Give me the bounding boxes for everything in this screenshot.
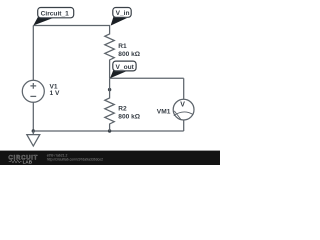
wire VM1 top	[183, 78, 185, 99]
meter gauge arc	[174, 112, 193, 116]
wire V_out rail	[110, 77, 184, 79]
svg-text:V: V	[180, 101, 185, 108]
wire bottom rail	[33, 130, 183, 132]
svg-text:1 V: 1 V	[50, 90, 60, 97]
svg-text:V_in: V_in	[116, 10, 130, 17]
svg-text:800 kΩ: 800 kΩ	[118, 114, 141, 121]
node label Circuit_1	[38, 8, 74, 18]
svg-text:V_out: V_out	[116, 64, 135, 71]
svg-text:R1: R1	[118, 43, 127, 50]
resistor R2	[105, 78, 115, 131]
svg-text:800 kΩ: 800 kΩ	[118, 51, 141, 58]
svg-text:R2: R2	[118, 106, 127, 113]
CircuitLab logo resistor squiggle	[9, 160, 22, 163]
svg-text:Circuit_1: Circuit_1	[41, 10, 70, 17]
ground	[27, 131, 40, 146]
junction dot R2 bottom	[108, 129, 111, 132]
svg-text:VM1: VM1	[157, 108, 171, 115]
junction dot at ground node	[32, 129, 35, 132]
wire left from node A down to V1 top	[32, 26, 34, 81]
wire V1 bottom to ground node	[32, 102, 34, 131]
svg-text:http://circuitlab.com/c97da9a3: http://circuitlab.com/c97da9a33b3ce2	[47, 158, 103, 162]
junction dot R2 top	[108, 88, 111, 91]
voltmeter VM1	[173, 99, 194, 120]
wire top from node A to V_in node	[33, 25, 110, 27]
node label Circuit_1 tail	[33, 16, 54, 26]
footer bar	[0, 151, 220, 165]
voltage source V1	[22, 80, 44, 102]
resistor R1	[105, 26, 115, 79]
node label V_out tail	[110, 70, 127, 79]
node label V_in tail	[111, 16, 127, 25]
meter needle	[174, 111, 181, 120]
wire VM1 bottom	[183, 120, 185, 131]
svg-text:LAB: LAB	[23, 159, 33, 164]
node label V_out	[113, 61, 136, 71]
node label V_in	[113, 8, 131, 18]
